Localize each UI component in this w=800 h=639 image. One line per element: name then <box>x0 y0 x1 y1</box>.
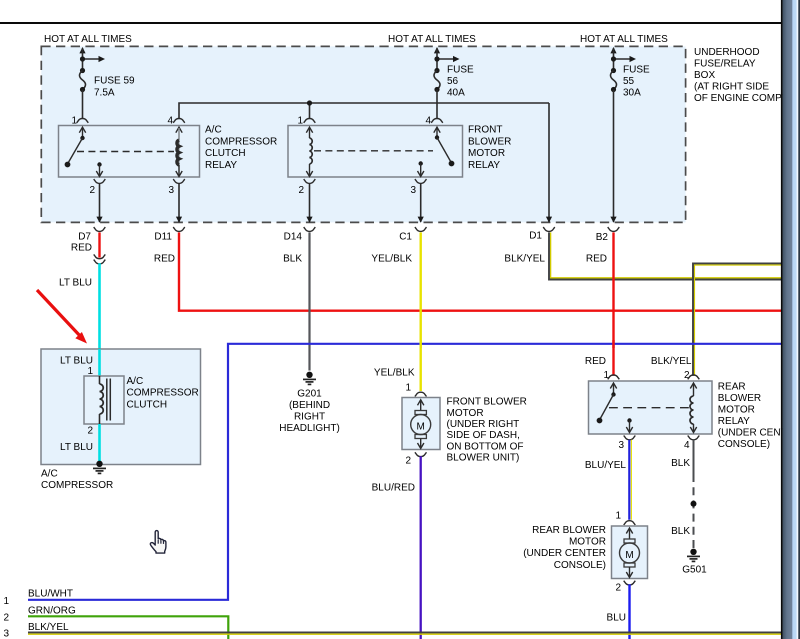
relay U1 A/C compressor clutch relay box <box>59 126 200 178</box>
svg-text:40A: 40A <box>447 88 465 99</box>
svg-text:2: 2 <box>4 613 10 624</box>
svg-text:SIDE OF DASH,: SIDE OF DASH, <box>447 430 520 441</box>
wire LT BLU from inline connector to A/C compressor <box>98 263 101 375</box>
junction dot bus to K2 pin1 <box>307 100 312 105</box>
junction dot fuse 59 feed <box>80 56 85 61</box>
wire BLU long run to right edge and bottom left <box>28 344 781 600</box>
fuse F56 <box>434 68 440 92</box>
svg-text:1: 1 <box>615 511 621 522</box>
svg-text:BLK/YEL: BLK/YEL <box>28 622 69 633</box>
text rear blower motor relay caption <box>718 382 800 451</box>
connector D7 <box>78 227 105 242</box>
fuse F55 <box>611 68 617 92</box>
svg-text:D11: D11 <box>154 232 172 243</box>
svg-text:REAR BLOWER: REAR BLOWER <box>532 525 606 536</box>
relay K1 coil <box>176 127 182 176</box>
svg-text:CONSOLE): CONSOLE) <box>718 439 770 450</box>
svg-text:BLU/WHT: BLU/WHT <box>28 589 73 600</box>
wire LT BLU clutch to ground <box>98 424 101 462</box>
connector cup front blower motor pin 2 <box>415 452 427 456</box>
relay K2 actuator dashed line <box>314 150 433 152</box>
svg-text:CONSOLE): CONSOLE) <box>554 560 606 571</box>
underhood fuse/relay box (dashed) <box>41 46 685 222</box>
svg-text:3: 3 <box>4 629 10 639</box>
wire BLK/YEL from right edge to rear blower relay pin 2 <box>693 263 781 375</box>
text A/C compressor clutch caption <box>127 376 199 410</box>
connector cup rear blower motor pin 2 <box>624 581 636 585</box>
svg-text:BLK/YEL: BLK/YEL <box>504 254 545 265</box>
svg-text:7.5A: 7.5A <box>94 88 115 99</box>
svg-text:UNDERHOOD: UNDERHOOD <box>694 47 760 58</box>
label FUSE 55 30A <box>623 65 650 99</box>
svg-text:B2: B2 <box>596 232 609 243</box>
svg-text:A/C: A/C <box>127 376 144 387</box>
wire relay K2 pin2 to connector D14 <box>306 183 312 223</box>
connector cup rear relay pin 4 <box>688 436 700 440</box>
svg-text:RELAY: RELAY <box>718 416 750 427</box>
wire coil bus (relay K1 pin4 / K2 pin1 / D1) <box>179 103 552 223</box>
svg-text:YEL/BLK: YEL/BLK <box>374 368 415 379</box>
svg-text:COMPRESSOR: COMPRESSOR <box>41 480 113 491</box>
svg-text:4: 4 <box>684 440 690 451</box>
wire fuse 59 to relay K1 pin 1 <box>82 90 84 119</box>
svg-text:FUSE/RELAY: FUSE/RELAY <box>694 59 756 70</box>
svg-text:LT BLU: LT BLU <box>59 278 92 289</box>
svg-text:BLU/YEL: BLU/YEL <box>585 460 627 471</box>
label FUSE 56 40A <box>447 65 474 99</box>
svg-text:COMPRESSOR: COMPRESSOR <box>205 136 277 147</box>
connector cup relay K2 pin 2 <box>304 179 316 183</box>
svg-text:D7: D7 <box>78 232 91 243</box>
wire BLU/RED from front blower motor to bottom <box>420 456 422 639</box>
connector cap relay K2 pin 1 <box>304 119 316 123</box>
wire BLK/YEL from D1 to right edge <box>549 232 781 279</box>
yellow wire patch over blue crossing <box>420 340 422 348</box>
connector cap relay K1 pin 4 <box>173 119 185 123</box>
svg-text:BLK: BLK <box>671 458 690 469</box>
connector cup relay K2 pin 3 <box>415 179 427 183</box>
ground G201 <box>303 372 316 385</box>
svg-text:D14: D14 <box>284 232 303 243</box>
svg-text:BLOWER: BLOWER <box>468 136 511 147</box>
connector cup relay K1 pin 2 <box>94 179 106 183</box>
wire BLU rear motor to bottom <box>628 584 630 639</box>
svg-text:2: 2 <box>615 583 621 594</box>
svg-text:D1: D1 <box>529 231 542 242</box>
inline connector on D7 wire <box>94 254 106 263</box>
svg-text:HOT AT ALL TIMES: HOT AT ALL TIMES <box>388 34 476 45</box>
wire BLK rear relay pin4 to G501 <box>693 440 695 549</box>
svg-text:YEL/BLK: YEL/BLK <box>371 254 412 265</box>
wire hot feed fuse 56 <box>434 47 460 71</box>
connector cap front blower motor pin 1 <box>415 392 427 396</box>
svg-text:M: M <box>625 550 633 561</box>
text underhood box caption <box>694 47 788 104</box>
svg-text:(BEHIND: (BEHIND <box>289 400 330 411</box>
junction dot fuse 56 feed <box>434 56 439 61</box>
svg-text:C1: C1 <box>399 232 412 243</box>
rear relay coil <box>690 383 697 433</box>
svg-text:BLOWER: BLOWER <box>718 393 761 404</box>
connector D14 <box>284 227 316 242</box>
wire YEL/BLK from C1 to front blower motor <box>420 232 422 391</box>
svg-text:1: 1 <box>71 116 77 127</box>
svg-text:G201: G201 <box>297 389 322 400</box>
wire fuse 56 to relay K2 pin 4 <box>436 90 438 119</box>
wire relay K1 pin2 to connector D7 <box>96 183 102 223</box>
connector cap rear relay pin 2 <box>688 375 700 379</box>
svg-text:BLK/YEL: BLK/YEL <box>651 356 692 367</box>
svg-text:GRN/ORG: GRN/ORG <box>28 606 76 617</box>
relay U3 rear blower motor relay box <box>589 381 713 434</box>
svg-text:1: 1 <box>297 116 303 127</box>
svg-text:MOTOR: MOTOR <box>569 537 606 548</box>
wire GRN/ORG <box>28 616 228 639</box>
svg-text:MOTOR: MOTOR <box>447 408 484 419</box>
junction dot fuse 55 feed <box>611 56 616 61</box>
text A/C compressor caption <box>41 469 113 492</box>
svg-text:4: 4 <box>167 116 173 127</box>
wire relay K1 pin3 to connector D11 <box>176 183 182 223</box>
relay K1 actuator dashed line <box>77 151 174 153</box>
connector C1 <box>399 227 426 242</box>
wire BLK/YEL bottom run <box>28 632 781 634</box>
svg-text:REAR: REAR <box>718 382 746 393</box>
svg-text:1: 1 <box>405 383 411 394</box>
svg-text:HOT AT ALL TIMES: HOT AT ALL TIMES <box>580 34 668 45</box>
svg-text:1: 1 <box>4 596 10 607</box>
svg-text:BLU/RED: BLU/RED <box>372 483 415 494</box>
wire hot feed fuse 59 <box>79 47 105 71</box>
A/C compressor clutch L1 <box>84 376 124 424</box>
wire BLK from D14 to G201 <box>308 232 310 370</box>
svg-text:MOTOR: MOTOR <box>718 405 755 416</box>
svg-text:M: M <box>417 422 425 433</box>
svg-text:RED: RED <box>154 254 175 265</box>
rear relay pin 3 contact <box>626 418 632 432</box>
wire RED from B2 to rear blower relay pin 1 <box>612 232 614 375</box>
svg-text:(AT RIGHT SIDE: (AT RIGHT SIDE <box>694 82 769 93</box>
svg-text:2: 2 <box>684 370 690 381</box>
mouse cursor <box>150 531 166 554</box>
svg-text:ON BOTTOM OF: ON BOTTOM OF <box>447 441 524 452</box>
svg-text:RED: RED <box>586 254 607 265</box>
svg-text:BLK: BLK <box>283 254 302 265</box>
connector cap rear blower motor pin 1 <box>624 521 636 525</box>
text A/C compressor clutch relay caption <box>205 125 277 172</box>
svg-text:2: 2 <box>405 456 411 467</box>
relay K2 switch <box>434 127 455 166</box>
connector cup rear relay pin 3 <box>624 436 636 440</box>
motor M2 rear blower motor <box>612 526 648 579</box>
scrollbar <box>783 0 800 639</box>
svg-text:G501: G501 <box>682 565 707 576</box>
connector cap rear relay pin 1 <box>608 375 620 379</box>
connector cup relay K1 pin 3 <box>173 179 185 183</box>
svg-text:FRONT BLOWER: FRONT BLOWER <box>447 397 527 408</box>
svg-text:LT BLU: LT BLU <box>60 356 93 367</box>
svg-text:3: 3 <box>618 440 624 451</box>
relay K2 pin 3 contact <box>418 161 424 176</box>
svg-text:56: 56 <box>447 76 459 87</box>
svg-text:30A: 30A <box>623 88 641 99</box>
svg-text:BLU: BLU <box>607 613 626 624</box>
svg-text:A/C: A/C <box>41 469 58 480</box>
wire RED from D11 to right edge <box>179 232 781 310</box>
svg-text:RED: RED <box>585 356 606 367</box>
connector D11 <box>154 227 184 242</box>
wire BLU/YEL rear relay pin3 to rear motor <box>629 440 631 520</box>
svg-text:RED: RED <box>71 243 92 254</box>
svg-text:CLUTCH: CLUTCH <box>205 148 246 159</box>
svg-text:CLUTCH: CLUTCH <box>127 399 168 410</box>
svg-text:RIGHT: RIGHT <box>294 412 325 423</box>
svg-text:2: 2 <box>89 185 95 196</box>
wire relay K2 pin3 to connector C1 <box>418 183 424 223</box>
svg-text:RELAY: RELAY <box>205 160 237 171</box>
red callout arrow <box>37 290 87 344</box>
svg-text:3: 3 <box>168 185 174 196</box>
relay K2 coil <box>306 127 312 176</box>
text front blower motor caption <box>447 397 527 464</box>
ground G501 <box>687 549 700 562</box>
svg-text:FUSE: FUSE <box>623 65 650 76</box>
svg-text:MOTOR: MOTOR <box>468 148 505 159</box>
text G201 caption <box>279 389 340 435</box>
svg-text:(UNDER RIGHT: (UNDER RIGHT <box>447 419 520 430</box>
window right border <box>781 0 783 639</box>
rear relay switch <box>597 383 617 423</box>
svg-text:FRONT: FRONT <box>468 125 502 136</box>
svg-text:HEADLIGHT): HEADLIGHT) <box>279 423 340 434</box>
wire RED from D7 <box>98 232 100 257</box>
svg-text:BLK: BLK <box>671 526 690 537</box>
svg-text:HOT AT ALL TIMES: HOT AT ALL TIMES <box>44 34 132 45</box>
component box A/C compressor <box>41 349 201 465</box>
text rear blower motor caption <box>523 525 606 571</box>
svg-text:BLOWER UNIT): BLOWER UNIT) <box>447 453 520 464</box>
red wire patch over blue crossing <box>612 340 614 348</box>
svg-text:BOX: BOX <box>694 70 715 81</box>
connector cap relay K2 pin 4 <box>431 119 443 123</box>
relay U2 front blower motor relay box <box>288 126 463 178</box>
connector D1 <box>529 227 555 241</box>
fuse F59 <box>80 68 86 92</box>
svg-text:LT BLU: LT BLU <box>60 442 93 453</box>
label FUSE 59 7.5A <box>94 76 135 99</box>
svg-text:4: 4 <box>425 116 431 127</box>
wire fuse 55 to connector B2 <box>610 90 616 223</box>
svg-text:RELAY: RELAY <box>468 160 500 171</box>
connector cap relay K1 pin 1 <box>77 119 89 123</box>
wire LT BLU inside box top <box>98 349 101 376</box>
relay K1 pin 2 contact <box>96 162 102 176</box>
svg-text:(UNDER CENTER: (UNDER CENTER <box>523 548 606 559</box>
svg-text:2: 2 <box>298 185 304 196</box>
svg-text:FUSE: FUSE <box>447 65 474 76</box>
svg-text:FUSE 59: FUSE 59 <box>94 76 135 87</box>
rear relay actuator dashed line <box>609 407 690 409</box>
junction dot on BLK wire <box>691 501 697 507</box>
svg-text:A/C: A/C <box>205 125 222 136</box>
relay K1 switch <box>65 127 86 167</box>
ground at A/C compressor <box>93 461 106 474</box>
connector B2 <box>596 227 620 243</box>
svg-text:3: 3 <box>410 185 416 196</box>
wire hot feed fuse 55 <box>610 47 636 71</box>
svg-text:55: 55 <box>623 76 635 87</box>
svg-text:2: 2 <box>87 426 93 437</box>
window top border <box>0 22 782 24</box>
svg-text:OF ENGINE COMPT: OF ENGINE COMPT <box>694 93 788 104</box>
svg-text:COMPRESSOR: COMPRESSOR <box>127 388 199 399</box>
motor M1 front blower motor <box>402 398 440 450</box>
text front blower motor relay caption <box>468 125 511 172</box>
